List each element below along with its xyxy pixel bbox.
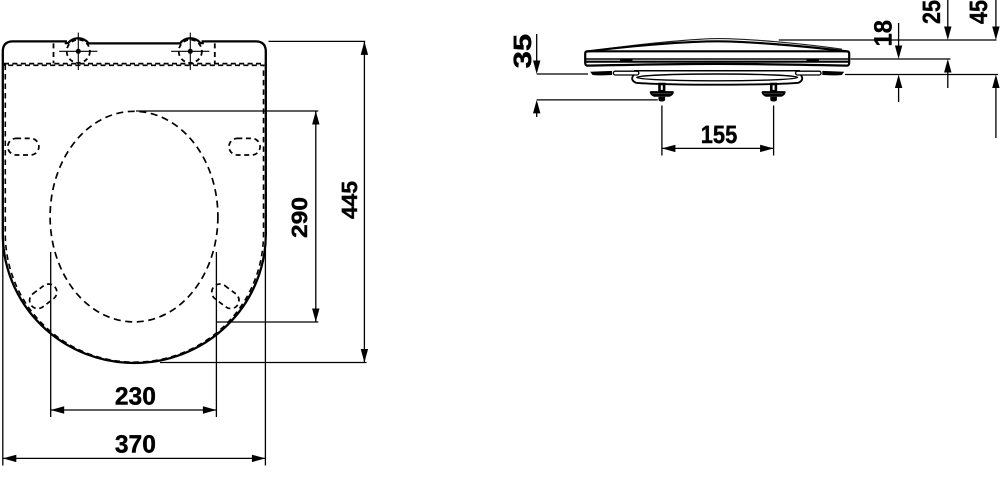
lid bottom rim line [634, 70, 800, 72]
hinge hole left [59, 33, 97, 70]
lid top outer contour [600, 39, 842, 50]
extension line bolt tip (ref D) [537, 99, 658, 101]
seat ring back edge dashed line 1 [4, 63, 265, 65]
bolt left [650, 84, 674, 102]
upper buffer slot left [8, 138, 39, 155]
upper buffer slot right [229, 138, 260, 155]
foot left [590, 71, 612, 76]
extension line foot bottom right (ref C) [845, 74, 998, 76]
lower buffer slot left [26, 281, 60, 312]
seat ring back edge dashed line 2 [4, 64, 265, 66]
dimension 445 [160, 41, 367, 362]
dimension 230 [51, 252, 217, 417]
dimension 35 [509, 34, 541, 117]
dimension 45 [965, 0, 1000, 138]
seat cover bottom arc [3, 234, 266, 363]
hinge pin right [807, 59, 820, 62]
bolt right [762, 84, 786, 102]
lid edge molding right [796, 71, 821, 75]
svg-text:18: 18 [870, 20, 898, 47]
lid seam line 2 [586, 61, 848, 63]
lid top main edge [586, 41, 849, 51]
svg-text:445: 445 [337, 181, 362, 219]
extension line foot bottom left [537, 73, 588, 75]
hinge hole right [171, 33, 209, 70]
svg-text:370: 370 [115, 431, 156, 459]
svg-text:155: 155 [701, 121, 738, 149]
seat cover outer outline [3, 38, 266, 234]
extension line lid bottom (ref B) [851, 58, 951, 60]
dimension 18 [870, 20, 903, 102]
seat ring inner rim [637, 74, 798, 81]
svg-text:45: 45 [965, 0, 993, 24]
lid body band [585, 51, 849, 65]
hinge pin left [620, 59, 633, 62]
svg-text:35: 35 [509, 34, 537, 69]
lid seam line 1 [586, 58, 848, 60]
lid edge molding left [613, 71, 638, 75]
hinge arm hidden edge left [53, 43, 55, 63]
dimension 370 [3, 238, 266, 466]
dimension 25 [918, 0, 951, 88]
extension line lid top (ref A) [779, 39, 997, 41]
hinge arm hidden edge right [214, 43, 216, 63]
dimension 290 [136, 111, 318, 322]
lower buffer slot right [208, 281, 242, 312]
svg-text:290: 290 [287, 197, 312, 238]
foot right [822, 71, 844, 76]
seat opening oval [50, 111, 218, 322]
svg-text:230: 230 [115, 383, 156, 411]
seat ring tray [632, 75, 802, 85]
svg-text:25: 25 [918, 0, 946, 24]
dimension 155 [662, 106, 774, 156]
seat ring hidden outline (dashed U) [5, 65, 263, 363]
